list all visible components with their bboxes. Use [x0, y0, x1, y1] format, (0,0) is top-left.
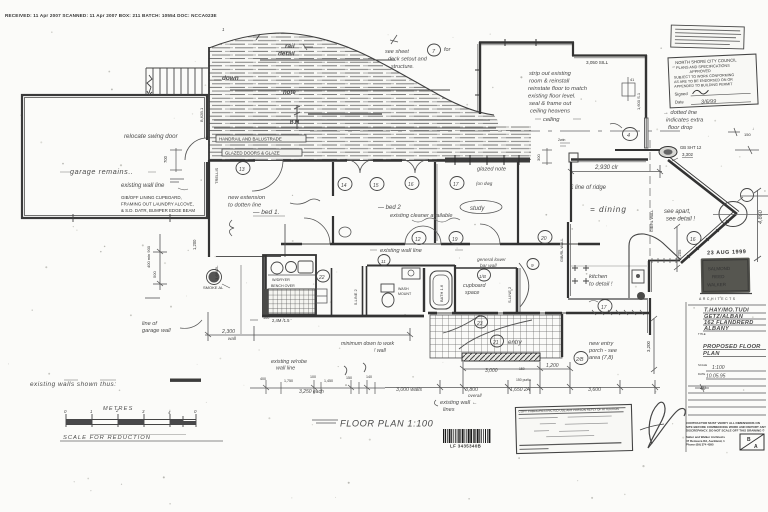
svg-text:T.HAY/MO.TUDI: T.HAY/MO.TUDI — [704, 308, 749, 314]
circled 13 — [236, 162, 250, 175]
lower rules — [688, 386, 766, 415]
svg-text:LF 3435340B: LF 3435340B — [450, 444, 481, 449]
garage wall projection line — [240, 265, 242, 334]
svg-text:9: 9 — [531, 263, 534, 268]
left dim column — [145, 234, 167, 298]
svg-text:DATE: DATE — [698, 372, 705, 376]
svg-text:SCALE FOR REDUCTION: SCALE FOR REDUCTION — [63, 435, 151, 441]
svg-text:kitchen: kitchen — [589, 274, 607, 280]
svg-text:2,300: 2,300 — [221, 329, 235, 335]
glazed thick bar — [445, 158, 530, 163]
svg-text:14: 14 — [341, 183, 347, 189]
big circle detail — [719, 202, 747, 227]
kitchen sink box — [632, 270, 644, 283]
svg-text:existing floor level.: existing floor level. — [528, 94, 576, 100]
vent ellipse on wall — [659, 147, 677, 158]
svg-text:3,250 each: 3,250 each — [299, 389, 324, 395]
circled 20 — [538, 231, 552, 244]
circled 17b — [598, 300, 612, 313]
circled 1B — [478, 269, 491, 281]
svg-text:1:100: 1:100 — [712, 365, 725, 371]
svg-text:see apart,: see apart, — [664, 209, 691, 215]
svg-text:GIB/RL WALL: GIB/RL WALL — [560, 238, 564, 262]
council approval stamp — [668, 54, 758, 108]
svg-text:1,650 2A: 1,650 2A — [510, 387, 531, 393]
svg-text:— bed 2: — bed 2 — [377, 205, 401, 211]
svg-text:BENCH OVER: BENCH OVER — [271, 284, 295, 288]
bath tub — [430, 271, 452, 309]
svg-text:S-LINE 2: S-LINE 2 — [507, 286, 512, 303]
svg-text:existing w/robe: existing w/robe — [271, 359, 307, 365]
circled 15 — [370, 178, 384, 191]
svg-text:to detail !: to detail ! — [589, 282, 613, 288]
svg-text:PLAN: PLAN — [703, 351, 720, 357]
sliding doors text band — [222, 149, 302, 156]
svg-text:2,205: 2,205 — [677, 249, 682, 260]
svg-text:1,750: 1,750 — [284, 379, 293, 383]
svg-text:SCALE: SCALE — [698, 363, 707, 367]
dining step wall — [572, 42, 574, 56]
svg-text:1,450: 1,450 — [324, 379, 333, 383]
architect firm info — [686, 435, 725, 447]
main bottom dim chain — [385, 362, 660, 394]
circled 23 — [475, 316, 488, 328]
contractor note block — [686, 421, 766, 433]
svg-text:existing wall line: existing wall line — [121, 183, 165, 189]
svg-text:deck setout and: deck setout and — [388, 57, 428, 63]
deck left edge wall — [208, 47, 210, 160]
circled 2B — [574, 352, 588, 365]
window in right wall — [645, 118, 649, 148]
handrail text band — [216, 135, 306, 142]
svg-text:3,600: 3,600 — [588, 387, 601, 393]
svg-text:17: 17 — [453, 182, 459, 188]
svg-text:room & reinstall: room & reinstall — [529, 79, 570, 85]
shower tile grid — [268, 289, 315, 314]
svg-text:23: 23 — [476, 321, 483, 327]
svg-text:3,000 walls: 3,000 walls — [396, 387, 422, 393]
svg-text:W/DRYER: W/DRYER — [272, 278, 290, 282]
svg-text:22: 22 — [318, 275, 325, 281]
door arcs study pair — [402, 160, 428, 173]
svg-text:to dotten line: to dotten line — [228, 203, 262, 209]
svg-text:& S.D. DATR, BUMPER EDGE BEAM: & S.D. DATR, BUMPER EDGE BEAM — [121, 208, 195, 213]
svg-text:1/B: 1/B — [479, 274, 486, 279]
svg-text:4: 4 — [627, 133, 630, 139]
svg-text:150 purlin: 150 purlin — [516, 378, 531, 382]
smoke alarm — [209, 272, 220, 283]
right edge dim marks — [728, 128, 759, 154]
svg-text:B: B — [747, 437, 751, 443]
svg-text:wall line: wall line — [276, 366, 295, 372]
svg-text:3,302: 3,302 — [682, 152, 694, 157]
dashed centreline — [310, 130, 680, 132]
hall wall to dining — [570, 162, 572, 222]
tub side wall — [454, 265, 456, 312]
kitchen right wall — [649, 298, 651, 335]
circled 12 — [412, 232, 426, 245]
porch right wall — [561, 314, 563, 357]
circled 21 — [491, 335, 504, 347]
diagonal wall lower — [679, 212, 737, 263]
hatched new wall — [462, 353, 540, 361]
diagonal wall upper — [668, 158, 739, 215]
logo box — [740, 434, 764, 450]
floor plan title — [312, 420, 338, 423]
svg-text:3/6/99: 3/6/99 — [701, 99, 717, 106]
architects dark stamp — [701, 258, 751, 294]
step lines corridor — [316, 289, 327, 303]
door arcs above corridor wall — [304, 218, 330, 244]
svg-text:400 min 900: 400 min 900 — [146, 245, 151, 268]
svg-text:11: 11 — [381, 259, 386, 264]
wall below dining — [571, 158, 648, 160]
hall wall at bathroom — [331, 268, 333, 316]
svg-text:12: 12 — [415, 237, 421, 243]
svg-text:glazed note: glazed note — [477, 167, 506, 173]
svg-text:150: 150 — [346, 376, 352, 380]
left dim chain — [250, 363, 385, 394]
wardrobe door arc — [519, 263, 529, 307]
deck hatched dome — [209, 33, 498, 160]
see sheet 7 note — [385, 47, 452, 70]
svg-text:1,600 S.1: 1,600 S.1 — [636, 92, 641, 110]
svg-text:floor drop: floor drop — [668, 125, 693, 131]
svg-text:Date: Date — [675, 99, 685, 104]
svg-text:2: 2 — [115, 408, 119, 413]
dark dot fixture — [637, 292, 645, 300]
corridor wall over bathrooms — [367, 265, 455, 267]
svg-text:see sheet: see sheet — [385, 49, 409, 55]
dark jamb — [263, 289, 268, 315]
svg-text:FLOOR PLAN 1:100: FLOOR PLAN 1:100 — [340, 419, 434, 429]
stairs — [146, 68, 208, 95]
svg-text:2win: 2win — [558, 138, 565, 142]
2205 vertical dim — [674, 224, 680, 272]
svg-text:PROPOSED FLOOR: PROPOSED FLOOR — [703, 344, 761, 350]
svg-text:HANDRAIL AND BALUSTRADE: HANDRAIL AND BALUSTRADE — [219, 137, 282, 142]
svg-text:FRAMING OUT LAUNDRY ALCOVE,: FRAMING OUT LAUNDRY ALCOVE, — [121, 202, 194, 207]
svg-text:A: A — [754, 444, 758, 450]
svg-text:GIB/OFF LINING CUPBOARD,: GIB/OFF LINING CUPBOARD, — [121, 195, 182, 200]
kitchen hobs — [572, 265, 589, 284]
cupboard top wall — [455, 267, 517, 269]
top wall ticks — [475, 39, 536, 95]
svg-text:→ dotted line: → dotted line — [663, 110, 698, 116]
svg-text:(on dwg: (on dwg — [476, 181, 493, 186]
svg-text:existing wall ←: existing wall ← — [440, 400, 477, 406]
svg-text:minimum down to work: minimum down to work — [341, 341, 394, 347]
svg-text:REED: REED — [712, 274, 725, 279]
svg-text:DISCREPANCY. DO NOT SCALE OFF: DISCREPANCY. DO NOT SCALE OFF THIS DRAWI… — [686, 429, 765, 433]
svg-text:400: 400 — [260, 377, 266, 381]
circled 16 — [405, 177, 419, 190]
svg-text:3,000: 3,000 — [485, 368, 498, 374]
washer fixture — [271, 262, 283, 274]
svg-text:100: 100 — [310, 375, 316, 379]
south wall of house — [428, 312, 589, 314]
porch dims — [460, 366, 573, 371]
dining right wall — [645, 55, 647, 118]
3200 dim — [651, 316, 657, 374]
svg-text:2/B: 2/B — [575, 357, 584, 363]
svg-text:MOUNT: MOUNT — [398, 292, 412, 296]
svg-text:RECEIVED: 11 Apr 2007 SCANNED: RECEIVED: 11 Apr 2007 SCANNED: 11 Apr 20… — [5, 13, 217, 18]
kitchen north line — [570, 265, 647, 267]
svg-text:down: down — [222, 75, 239, 82]
dashed partition line — [649, 140, 651, 256]
small dim marks above 2930 — [560, 143, 570, 146]
svg-text:B,62B.1: B,62B.1 — [199, 107, 204, 122]
svg-text:note: note — [283, 90, 296, 96]
handwritten strip-out note — [528, 71, 587, 123]
wardrobe walls — [516, 268, 519, 312]
left building wall below garage — [208, 160, 210, 257]
svg-text:140: 140 — [366, 375, 372, 379]
signature — [648, 402, 685, 448]
circled 19 — [449, 232, 463, 245]
wc fixtures — [381, 284, 394, 292]
svg-text:ceiling heavens: ceiling heavens — [530, 109, 570, 115]
circled 16 diag — [687, 232, 701, 245]
svg-text:3,050 SILL: 3,050 SILL — [586, 60, 609, 65]
svg-text:new entry: new entry — [589, 341, 614, 347]
kitchen bench line — [568, 298, 648, 300]
svg-text:WALKER: WALKER — [707, 282, 727, 287]
svg-text:cupboard: cupboard — [463, 283, 486, 289]
svg-text:ALBANY: ALBANY — [703, 326, 730, 332]
stamp conditions box top right — [671, 25, 745, 49]
svg-text:BATH 1.6: BATH 1.6 — [439, 284, 444, 302]
svg-text:41: 41 — [630, 78, 634, 82]
deck dome curve outline — [209, 33, 494, 115]
svg-text:SMOKE AL: SMOKE AL — [203, 285, 224, 290]
svg-text:700: 700 — [163, 155, 168, 163]
svg-text:WASH: WASH — [398, 287, 409, 291]
svg-text:17: 17 — [601, 305, 607, 311]
bathroom A outline — [263, 255, 316, 315]
svg-text:5-LINE 2: 5-LINE 2 — [353, 288, 358, 305]
dining room left wall — [479, 42, 481, 114]
svg-text:existing wall line: existing wall line — [380, 248, 423, 254]
svg-text:indicates extra: indicates extra — [666, 118, 704, 124]
svg-text:100: 100 — [263, 316, 269, 320]
wc room walls — [362, 266, 364, 316]
4860 vertical dim — [754, 188, 761, 262]
wall bathroom south — [262, 315, 424, 318]
circled 4 note near wall — [623, 128, 638, 141]
svg-text:wall: wall — [228, 336, 237, 341]
svg-text:1,200: 1,200 — [192, 239, 197, 250]
interior wall bed2/study — [434, 162, 436, 243]
circled 9 — [527, 259, 539, 270]
2930 dim — [568, 165, 663, 178]
centreline through circle — [713, 214, 768, 216]
door arc bed1 — [252, 160, 283, 191]
title block divider — [685, 302, 687, 452]
certificate stamp bottom — [515, 404, 632, 453]
svg-text:ARCHITECTS: ARCHITECTS — [699, 297, 737, 301]
svg-text:3,200: 3,200 — [646, 340, 651, 352]
glazed south wall of bedrooms — [209, 160, 445, 162]
dim 700 near garage right — [170, 148, 182, 172]
circled 14 — [338, 178, 352, 191]
svg-text:↓: ↓ — [752, 126, 754, 131]
svg-text:garage wall: garage wall — [142, 328, 171, 334]
svg-text:Phone (09) 374 4295: Phone (09) 374 4295 — [686, 443, 714, 447]
svg-text:4,860: 4,860 — [758, 209, 764, 224]
svg-text:TITLE: TITLE — [698, 332, 706, 336]
extension boundary lines — [216, 256, 281, 258]
svg-text:= dining: = dining — [590, 205, 627, 214]
svg-text:2,930 clr: 2,930 clr — [594, 165, 619, 171]
svg-text:porch - see: porch - see — [588, 348, 617, 354]
svg-text:study: study — [470, 206, 485, 212]
circled 11 — [378, 255, 390, 266]
kitchen curved wall — [629, 234, 681, 298]
title block address lines — [688, 305, 766, 331]
svg-text:existing cleaner available: existing cleaner available — [390, 213, 453, 219]
garage outline — [22, 95, 207, 218]
svg-text:SALMOND: SALMOND — [708, 266, 731, 271]
stair arrow — [147, 75, 152, 93]
svg-text:20: 20 — [540, 236, 547, 242]
svg-text:existing walls shown thus:: existing walls shown thus: — [30, 381, 117, 388]
svg-text:overall: overall — [468, 393, 483, 398]
svg-text:13: 13 — [239, 167, 245, 173]
svg-text:lines: lines — [443, 407, 455, 413]
svg-text:seal & frame out: seal & frame out — [529, 101, 572, 107]
svg-text:GB SHT 12: GB SHT 12 — [680, 145, 702, 150]
svg-text:15: 15 — [373, 183, 379, 189]
interior wall bed1/bed2 — [332, 162, 334, 196]
svg-text:structure.: structure. — [391, 64, 414, 70]
svg-text:garage remains..: garage remains.. — [70, 167, 134, 176]
svg-text:16: 16 — [690, 237, 696, 243]
svg-text:16: 16 — [408, 182, 414, 188]
bench fixture — [298, 261, 313, 273]
small dim box right wall — [622, 77, 635, 101]
svg-text:strip out existing: strip out existing — [529, 71, 572, 77]
svg-text:TRELLIS: TRELLIS — [214, 167, 219, 184]
svg-text:relocate swing door: relocate swing door — [124, 133, 179, 140]
svg-text:— bed 1.: — bed 1. — [252, 209, 280, 216]
svg-text:rail: rail — [285, 43, 295, 50]
svg-text:150: 150 — [744, 132, 751, 137]
svg-text:ceiling: ceiling — [543, 117, 560, 123]
svg-text:19: 19 — [452, 237, 458, 243]
kitchen west wall — [567, 222, 569, 298]
svg-text:1,200: 1,200 — [546, 363, 559, 369]
darker hatch streaks — [214, 60, 496, 128]
kitchen NE corner walls — [648, 260, 680, 262]
small bracket marks below garage text — [170, 179, 184, 182]
porch tile grid — [430, 315, 562, 358]
svg-text:₤ line of ridge: ₤ line of ridge — [569, 185, 607, 191]
garage door opening right wall — [185, 136, 209, 162]
svg-text:500: 500 — [152, 271, 157, 278]
barcode — [443, 429, 490, 443]
svg-text:2,4M /1.5 ': 2,4M /1.5 ' — [272, 318, 292, 323]
door arcs bed2 pair — [347, 160, 373, 173]
svg-text:GLAZED DOORS & GLAZE: GLAZED DOORS & GLAZE — [225, 151, 280, 156]
svg-text:space: space — [465, 290, 479, 296]
svg-text:general lower: general lower — [477, 257, 506, 263]
svg-text:300: 300 — [536, 154, 541, 161]
svg-text:21: 21 — [492, 340, 499, 346]
svg-text:! wall: ! wall — [374, 348, 387, 354]
svg-text:Signed: Signed — [674, 91, 688, 97]
svg-text:detail: detail — [278, 51, 295, 58]
small rect end block — [569, 153, 578, 162]
svg-text:GIB/RL WALL: GIB/RL WALL — [650, 210, 654, 232]
svg-text:3,6M/2L: 3,6M/2L — [214, 265, 219, 280]
existing wall line row — [281, 243, 600, 245]
svg-text:line of: line of — [142, 321, 158, 327]
svg-text:see detail !: see detail ! — [666, 217, 695, 223]
study right wall — [517, 162, 519, 243]
svg-text:area (7,8): area (7,8) — [589, 355, 613, 361]
circled 17 — [450, 177, 464, 190]
dining room top wall — [479, 41, 574, 43]
svg-text:B.M: B.M — [290, 120, 299, 126]
porch arc big — [459, 320, 532, 349]
svg-text:10.05.95: 10.05.95 — [706, 374, 726, 380]
top centre mark — [390, 35, 398, 44]
svg-text:new extension: new extension — [228, 195, 265, 201]
svg-text:reinstate floor to match: reinstate floor to match — [528, 86, 587, 92]
node circle top right — [741, 189, 754, 202]
300 dim — [542, 148, 552, 165]
dim 2300 — [205, 312, 413, 341]
circled 22 — [317, 270, 330, 282]
svg-text:entry: entry — [508, 339, 523, 346]
deck hatch right band — [498, 126, 531, 160]
